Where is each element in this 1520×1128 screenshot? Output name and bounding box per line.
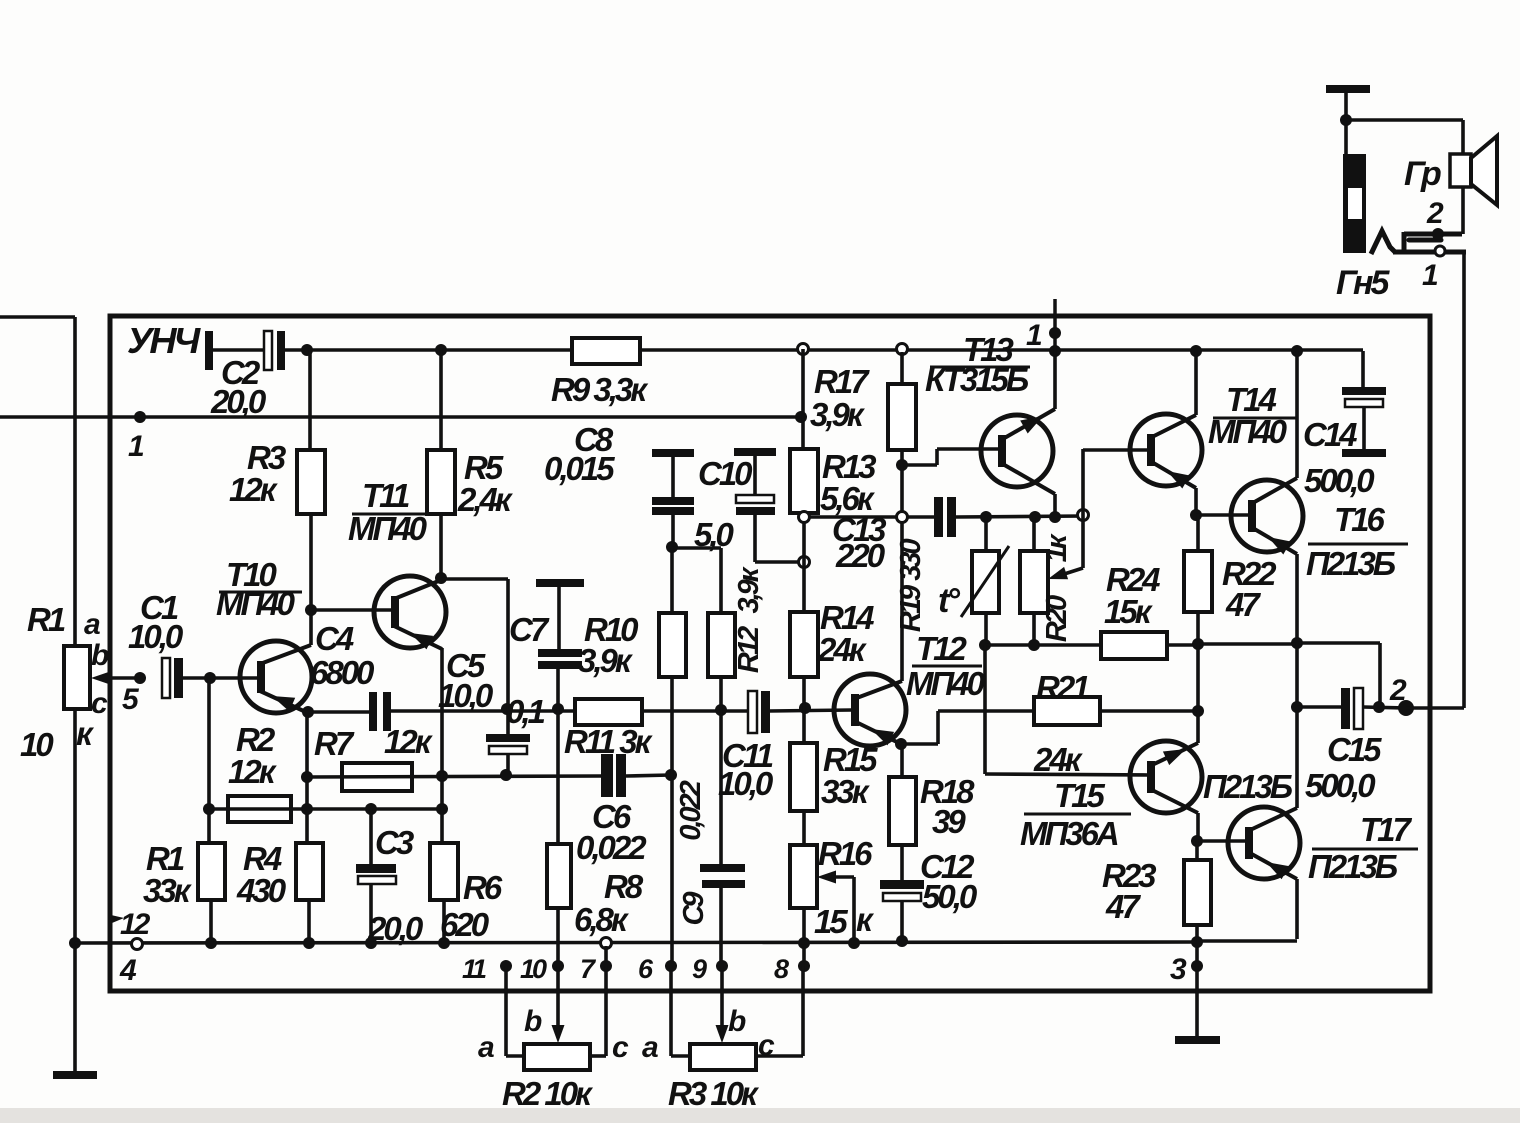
wire R19 line (900, 465, 904, 681)
junction R9 right open (798, 344, 809, 355)
svg-text:П213Б: П213Б (1306, 545, 1396, 582)
wire R23 top (1195, 841, 1199, 860)
wire y645 line (985, 643, 1199, 647)
potentiometer R20 wiper arrow (1058, 568, 1083, 576)
scan shading bottom (0, 1108, 1520, 1123)
svg-text:1: 1 (1422, 259, 1438, 292)
wire left rail lower (73, 708, 77, 1071)
wire speaker bottom lead (1461, 187, 1465, 234)
resistor R15 body (790, 743, 817, 811)
resistor R7 body (342, 763, 412, 791)
resistor R17 body (888, 384, 916, 450)
node 1 top (1049, 327, 1061, 339)
svg-text:T17: T17 (1360, 811, 1413, 848)
node R21 right (1192, 705, 1204, 717)
wire base jog h1 (902, 463, 937, 467)
svg-text:47: 47 (1105, 888, 1141, 925)
svg-text:МП36А: МП36А (1020, 815, 1118, 852)
node signal C5 (501, 703, 513, 715)
wire signal T10em-C4 (307, 710, 370, 714)
node R20 bottom (1028, 639, 1040, 651)
svg-text:12: 12 (120, 908, 151, 941)
resistor R8 body (547, 844, 571, 908)
wire signal C4-C11 (390, 709, 749, 713)
wire y644 seg (1199, 642, 1297, 646)
svg-text:330: 330 (895, 538, 927, 580)
capacitor C8 plate2 (652, 507, 694, 515)
node T17 base node (1191, 835, 1203, 847)
wire T11coll jog (441, 577, 508, 581)
wire T12em jog h1 (901, 742, 938, 746)
svg-text:b: b (91, 639, 109, 672)
svg-text:R21: R21 (1036, 669, 1089, 706)
svg-text:КТ315Б: КТ315Б (925, 361, 1029, 398)
wire T16 em down (1295, 554, 1299, 643)
svg-text:10,0: 10,0 (128, 618, 184, 655)
capacitor C15 hollow plate (1354, 688, 1363, 729)
T14 label underline (1213, 417, 1296, 420)
resistor R10 body (659, 613, 686, 677)
wire x985 down (983, 645, 987, 774)
svg-text:12к: 12к (384, 723, 434, 760)
wire base jog v (935, 449, 939, 465)
capacitor C11 hollow plate (748, 691, 757, 733)
wire signal C11-T12 (769, 710, 852, 711)
ground symbol right (1175, 1036, 1220, 1044)
svg-text:R19: R19 (895, 585, 927, 632)
svg-text:12к: 12к (229, 471, 279, 508)
wire C2 lead (213, 348, 264, 352)
svg-text:R16: R16 (818, 835, 873, 872)
node 5 (134, 672, 146, 684)
capacitor C15 solid plate (1341, 688, 1350, 729)
svg-text:C7: C7 (509, 611, 550, 648)
jack pin2 riser (1402, 232, 1407, 250)
capacitor C3 solid plate (356, 864, 396, 873)
svg-text:620: 620 (440, 906, 490, 943)
wire T14 base h (1083, 448, 1149, 452)
capacitor C9 solid plate top (700, 864, 745, 872)
svg-text:C4: C4 (315, 620, 354, 657)
node R17 bottom (896, 459, 908, 471)
node speaker gnd (1340, 114, 1352, 126)
wire x1297 to C15node (1295, 643, 1299, 707)
resistor R6 body (430, 843, 458, 900)
ground symbol top (1326, 85, 1370, 93)
svg-text:T12: T12 (916, 630, 968, 667)
wire C15 right lead (1363, 707, 1406, 708)
svg-text:R12: R12 (733, 626, 765, 673)
node R7 left (301, 771, 313, 783)
svg-text:3,9к: 3,9к (733, 566, 765, 613)
capacitor C10 top bar (734, 448, 776, 456)
resistor R4 body (296, 843, 323, 900)
wire x1198 mid (1196, 644, 1200, 711)
wire C10 to R13R14 (755, 560, 800, 564)
capacitor C6 right plate (616, 754, 626, 797)
wire R10 top (670, 548, 674, 613)
resistor R12 body (708, 613, 735, 677)
svg-text:a: a (642, 1031, 658, 1064)
resistor R5 body (427, 450, 455, 514)
svg-text:0,015: 0,015 (544, 450, 615, 487)
svg-text:6,8к: 6,8к (574, 901, 630, 938)
svg-text:33к: 33к (143, 872, 193, 909)
capacitor C13 plate2 (947, 497, 956, 537)
wire node3 down (1195, 966, 1199, 1036)
resistor R22 body (1184, 551, 1212, 612)
wire R20 wiper vert (1081, 516, 1085, 568)
svg-text:П213Б: П213Б (1308, 848, 1398, 885)
block border УНЧ box (110, 316, 1430, 991)
T11 label underline (352, 513, 440, 516)
junction bias-R20wiper open (1078, 510, 1089, 521)
node input end (795, 411, 807, 423)
svg-text:11: 11 (462, 954, 486, 984)
wire pin10 wiper (556, 966, 560, 1028)
node R2 left (203, 803, 215, 815)
node signal T12 base (799, 702, 811, 714)
wire emitter down x307 (305, 712, 309, 843)
wire jack feed up (1462, 252, 1466, 708)
wire T14 base v (1081, 449, 1085, 516)
wire R22 top (1196, 515, 1200, 551)
svg-text:R9 3,3к: R9 3,3к (551, 371, 649, 408)
jack pin2 contact (1404, 232, 1462, 237)
svg-text:0,022: 0,022 (576, 829, 647, 866)
node pin 8 (798, 960, 810, 972)
svg-text:C10: C10 (698, 455, 753, 492)
node R6 gnd (438, 937, 450, 949)
wire pin11 down (504, 966, 508, 1056)
wire T16 coll up (1295, 351, 1299, 478)
wire to speaker (1346, 118, 1463, 122)
svg-text:430: 430 (236, 872, 287, 909)
potentiometer R3 body (690, 1044, 756, 1070)
resistor R18 body (889, 777, 916, 845)
wire R12 top (719, 548, 723, 613)
capacitor C9 solid plate bot (702, 880, 745, 888)
wire T17 base (1197, 839, 1247, 843)
node T12 emitter (895, 738, 907, 750)
connector Гн5 window (1348, 188, 1362, 219)
junction pin1 open (1435, 246, 1445, 256)
wire R18-C12 (900, 845, 904, 880)
svg-text:МП40: МП40 (348, 510, 428, 547)
svg-text:12к: 12к (228, 753, 278, 790)
svg-text:a: a (84, 608, 100, 641)
wire T14 em down (1194, 488, 1198, 515)
pin12 tick (111, 915, 124, 923)
wire T15 low down (1196, 813, 1200, 841)
svg-text:R6: R6 (463, 869, 503, 906)
resistor R23 body (1184, 860, 1211, 925)
node pin2 jack (1432, 228, 1444, 240)
wire R14 bottom (802, 677, 806, 708)
wire R22 bottom (1196, 612, 1200, 645)
wire C12 bottom (900, 901, 904, 942)
wire T17 coll up (1295, 707, 1299, 808)
node 2 output (1398, 700, 1414, 716)
speaker Гр horn (1471, 136, 1497, 205)
svg-text:6800: 6800 (310, 654, 375, 691)
capacitor C2 hollow plate (264, 331, 272, 370)
node T11 collector (435, 572, 447, 584)
wire pin8 to pot (756, 1054, 803, 1058)
thermistor body (972, 551, 999, 613)
wire R1 bottom (209, 900, 213, 944)
svg-text:R2 10к: R2 10к (502, 1075, 594, 1112)
wire T17 em down (1295, 879, 1299, 939)
wire base jog h2 (937, 447, 1000, 451)
svg-text:С15: С15 (1327, 731, 1382, 768)
wire pin9 wiper (720, 966, 724, 1028)
node supply R3 (301, 344, 313, 356)
svg-text:24к: 24к (1033, 741, 1084, 778)
junction C13-R19 open (897, 512, 908, 523)
svg-text:R3 10к: R3 10к (668, 1075, 760, 1112)
svg-text:10,0: 10,0 (718, 765, 774, 802)
ground symbol left (53, 1071, 97, 1079)
wire R16 bottom (802, 908, 806, 966)
svg-text:24к: 24к (817, 631, 868, 668)
svg-text:П213Б: П213Б (1203, 768, 1293, 805)
wire R3 top (308, 350, 312, 450)
node out y643 (1291, 637, 1303, 649)
wire C13 line right (956, 516, 1083, 517)
node signal C7 (552, 703, 564, 715)
junction C13-R13 open (799, 512, 810, 523)
wire therm top lead (984, 517, 988, 551)
svg-text:УНЧ: УНЧ (127, 320, 202, 361)
node pin 6 (665, 960, 677, 972)
potentiometer R2 wiper arrow (552, 1025, 565, 1043)
resistor R9 body (572, 338, 640, 364)
wire R18 top (900, 744, 904, 777)
junction C10 open (799, 557, 810, 568)
wire T15 base line (985, 774, 1149, 775)
node pin 7 (600, 960, 612, 972)
capacitor C14 bottom plate (1342, 449, 1386, 457)
wire speaker top lead (1461, 120, 1465, 154)
svg-text:15: 15 (814, 903, 848, 940)
capacitor C1 solid plate (174, 658, 183, 698)
T17 label underline (1312, 848, 1418, 851)
node therm top (980, 511, 992, 523)
wire R17 bottom lead (900, 450, 904, 465)
potentiometer R2 body (524, 1044, 590, 1070)
svg-text:10: 10 (20, 726, 54, 763)
wire pin8 down (801, 966, 805, 1056)
svg-text:1: 1 (1026, 319, 1042, 352)
wire R17 top lead (900, 352, 904, 384)
wire R4 bottom (307, 900, 311, 944)
wire T13 up (1053, 351, 1057, 409)
T16 label underline (1308, 543, 1408, 546)
node pin 9 (716, 960, 728, 972)
node signal R12C9 (715, 704, 727, 716)
resistor R14 body (790, 612, 818, 677)
node 3 (1191, 960, 1203, 972)
transistor T10 МП40 (240, 641, 312, 713)
capacitor C14 hollow plate (1345, 399, 1383, 407)
node C5 bottom (500, 769, 512, 781)
svg-text:20,0: 20,0 (210, 383, 267, 420)
capacitor C12 solid plate (880, 880, 924, 889)
wire base down x209 (207, 678, 211, 843)
node C15 left (1291, 701, 1303, 713)
svg-text:a: a (478, 1031, 494, 1064)
capacitor C8 plate1 (652, 497, 694, 505)
transistor T17 П213Б (1228, 807, 1300, 879)
node T10 base (204, 672, 216, 684)
resistor R20 body (1020, 551, 1048, 613)
capacitor C2 right plate (277, 331, 285, 370)
capacitor C10 hollow plate (736, 495, 774, 503)
wire R13-R14 (802, 513, 806, 612)
wire T12em jog v (936, 711, 940, 744)
node pin 10 (552, 960, 564, 972)
transistor T11 МП40 (374, 576, 446, 648)
wire R10 bottom x672 (670, 677, 674, 966)
capacitor C11 solid plate (761, 691, 770, 733)
svg-text:C14: C14 (1303, 416, 1357, 453)
node R1b gnd (205, 937, 217, 949)
wire T12em to R21 (938, 709, 1199, 713)
jack pin1 contact (1393, 250, 1466, 255)
svg-text:T15: T15 (1054, 777, 1106, 814)
wire C10 stem (753, 456, 757, 495)
resistor R3 body (297, 450, 325, 514)
wire C8 stem (671, 457, 675, 497)
node R23 gnd (1191, 936, 1203, 948)
capacitor C7 plate1 (538, 649, 582, 657)
wire R7 line (307, 776, 601, 777)
wire x803 upper (801, 349, 805, 417)
capacitor C5 solid plate (486, 734, 530, 742)
wire pin7 down (604, 966, 608, 1056)
node 1 left (134, 411, 146, 423)
resistor R16 body (790, 845, 817, 908)
wire pin6 down (669, 966, 673, 1056)
wire R5 bottom (439, 514, 443, 578)
wire wiper stem R2 (556, 1028, 560, 1036)
capacitor C10 solid plate (736, 507, 775, 515)
wire left rail upper (73, 317, 77, 647)
wire R8 bottom (556, 908, 560, 966)
svg-text:C9: C9 (678, 892, 710, 926)
wire y643 to corner (1297, 641, 1380, 645)
svg-text:15к: 15к (1104, 593, 1154, 630)
wire C7 lower stem (556, 669, 560, 844)
node R7line end (665, 769, 677, 781)
wire R16 wiper down (852, 877, 856, 943)
transistor T13 КТ315Б (981, 415, 1053, 487)
T12 label underline (912, 665, 982, 668)
svg-text:b: b (728, 1005, 746, 1038)
resistor R13 body (790, 449, 818, 513)
svg-text:T11: T11 (362, 477, 409, 514)
node R2-R4 cross (301, 803, 313, 815)
wire pin7 to pot (590, 1054, 606, 1058)
svg-text:Гр: Гр (1404, 155, 1441, 193)
connector Гн5 body (1343, 154, 1366, 253)
resistor R11 body (575, 699, 642, 725)
transistor T16 П213Б (1231, 480, 1303, 552)
node R16 gnd (798, 937, 810, 949)
node R2 right (436, 803, 448, 815)
wire out to jack (1406, 706, 1464, 710)
svg-text:C3: C3 (375, 824, 414, 861)
svg-text:R17: R17 (814, 363, 870, 400)
wire R12 bottom (719, 677, 723, 864)
svg-text:R20: R20 (1041, 595, 1073, 642)
capacitor C12 hollow plate (883, 893, 921, 901)
potentiometer R1 10к body (64, 646, 90, 709)
node R4 gnd (303, 937, 315, 949)
svg-text:10: 10 (520, 954, 547, 984)
wire C7 stem (557, 587, 561, 649)
wire corner down (1378, 643, 1382, 707)
wire R6 bottom (442, 900, 446, 944)
capacitor C4 left plate (369, 692, 377, 731)
wire pin6 to pot (671, 1054, 690, 1058)
wire T10 collector up (309, 610, 313, 645)
svg-text:5,0: 5,0 (694, 516, 735, 553)
svg-text:R1: R1 (27, 601, 65, 638)
svg-text:50,0: 50,0 (922, 878, 978, 915)
transistor T14 МП40 (1130, 414, 1202, 486)
svg-text:1: 1 (128, 430, 144, 463)
potentiometer R1 wiper arrow (104, 676, 140, 680)
svg-text:1к: 1к (1041, 533, 1073, 562)
node T14em-T16base (1190, 509, 1202, 521)
wire supply line y350 (285, 348, 1363, 352)
node supply T16 (1291, 345, 1303, 357)
capacitor C3 bottom stem (369, 884, 373, 943)
jack break contact (1409, 238, 1441, 243)
svg-text:R7: R7 (314, 725, 355, 762)
svg-text:500,0: 500,0 (1304, 462, 1375, 499)
node supply T14 (1190, 345, 1202, 357)
node C8 bottom (666, 541, 678, 553)
resistor R24 body (1101, 632, 1167, 659)
svg-text:220: 220 (835, 537, 886, 574)
svg-text:Гн5: Гн5 (1336, 264, 1391, 302)
svg-text:33к: 33к (821, 773, 871, 810)
wire R20 top lead (1032, 517, 1036, 551)
capacitor C7 plate2 (538, 661, 582, 669)
wire R15 top (802, 708, 806, 743)
svg-text:3,9к: 3,9к (810, 396, 866, 433)
capacitor C7 top bar (536, 579, 584, 587)
wire R5 top (439, 350, 443, 450)
node therm bottom (979, 639, 991, 651)
wire C9 bottom (719, 888, 723, 966)
resistor R1 33к body (198, 843, 225, 900)
wire T10coll to T11 base (311, 608, 393, 612)
svg-text:2,4к: 2,4к (457, 481, 514, 518)
potentiometer R16 wiper (830, 875, 854, 879)
svg-text:R8: R8 (604, 868, 644, 905)
node C12 gnd (896, 935, 908, 947)
wire C14 stem (1362, 407, 1366, 449)
T15 label underline (1024, 813, 1131, 816)
wire C8 lower (671, 515, 675, 548)
wire T14 coll up (1194, 351, 1198, 415)
svg-text:47: 47 (1225, 586, 1261, 623)
wire ground stem (1344, 93, 1348, 154)
